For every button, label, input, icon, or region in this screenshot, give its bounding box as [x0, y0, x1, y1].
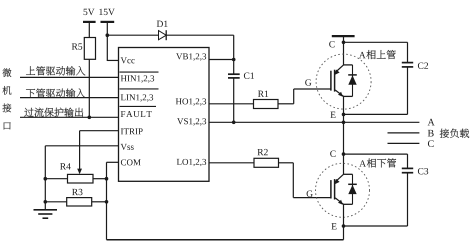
wire 5V to R5 — [88, 22, 90, 38]
wire to C2 top — [344, 41, 408, 43]
5V supply label — [84, 9, 95, 15]
wire upper emitter to lower collector — [343, 96, 345, 174]
pin Vcc — [121, 57, 135, 63]
node A label — [428, 119, 435, 126]
pin Vss — [121, 144, 134, 150]
wire R4 row — [45, 178, 67, 180]
wire HIN input — [20, 76, 119, 78]
15V supply bar — [101, 21, 115, 23]
过流保护输出 overcurrent protection output label — [24, 108, 83, 117]
junction 15V-D1 — [106, 33, 110, 37]
junction R3 right — [105, 200, 109, 204]
wire COM pin left — [107, 161, 119, 163]
junction phase midpoint — [342, 121, 346, 125]
node C label lower — [330, 151, 335, 157]
junction R4 left — [44, 177, 48, 181]
node E label lower — [331, 223, 336, 229]
junction upper emitter — [342, 113, 346, 117]
wire 15V to Vcc pin — [107, 59, 118, 61]
resistor R2 — [257, 149, 267, 155]
wire FAULT output — [20, 116, 119, 118]
5V supply bar — [83, 21, 96, 23]
junction R3 left — [44, 200, 48, 204]
pin ITRIP — [121, 128, 143, 134]
pin LIN1,2,3 (active low) — [121, 94, 153, 101]
wire C3 bottom to lower emitter — [407, 173, 409, 226]
wire 15V to D1 anode — [107, 34, 158, 36]
wire ITRIP pin to R4 wiper — [80, 130, 119, 132]
pin COM — [121, 159, 141, 165]
junction R4 right — [105, 177, 109, 181]
capacitor C3 — [402, 167, 413, 169]
node B stub — [388, 132, 420, 134]
pin VS1,2,3 — [177, 118, 206, 125]
DC+ bus bar — [332, 35, 355, 37]
node C label upper — [329, 41, 334, 47]
15V supply label — [99, 9, 114, 15]
junction lower emitter — [342, 224, 346, 228]
ground — [44, 202, 46, 210]
wire 15V vertical — [106, 22, 108, 61]
node E label upper — [330, 112, 335, 118]
wire R2 to lower gate — [279, 162, 294, 164]
wire R1 to upper gate — [278, 103, 294, 105]
wire C2 bottom to upper emitter — [407, 67, 409, 115]
A相下管 phase-A lower tube label — [359, 160, 366, 166]
wire Vss vertical to ground net — [44, 146, 46, 202]
node G label upper — [305, 79, 311, 85]
pin HO1,2,3 — [176, 98, 206, 105]
op-amp U1 driver IC box — [119, 48, 210, 182]
resistor R5 — [84, 38, 95, 60]
node G label lower — [307, 191, 313, 197]
junction C3 tap — [342, 152, 346, 156]
wire VB pin to bootstrap node — [209, 59, 234, 61]
node C stub — [388, 142, 420, 144]
wire lower emitter to rail — [343, 204, 345, 239]
capacitor C2 — [402, 62, 413, 64]
wire R3 row — [45, 201, 66, 203]
diode D1 — [159, 31, 167, 40]
R4 wiper arrowhead — [77, 169, 82, 175]
pin LO1,2,3 — [177, 159, 206, 166]
wire LO pin to R2 — [209, 162, 254, 164]
wire Vss pin left — [45, 145, 118, 147]
wire bootstrap vertical to VB — [233, 35, 235, 74]
resistor R3 — [72, 189, 82, 195]
potentiometer R4 — [60, 163, 71, 169]
wire to C3 top — [344, 153, 408, 155]
接负载 connect-load label — [440, 129, 469, 138]
下管驱动输入 lower-gate drive input label — [26, 88, 85, 97]
resistor R1 — [258, 91, 268, 97]
transistor Q2 lower IGBT with freewheel diode — [316, 163, 370, 217]
pin FAULT (active low) — [121, 111, 152, 117]
A相上管 phase-A upper tube label — [359, 52, 366, 58]
wire C1 to VS net — [233, 78, 235, 122]
junction C2 tap — [342, 41, 346, 45]
junction R5-FAULT — [88, 116, 92, 120]
上管驱动输入 upper-gate drive input label — [26, 66, 85, 75]
wire D1 cathode to bootstrap node — [166, 34, 234, 36]
wire DC+ to upper collector — [343, 36, 345, 65]
wire COM/emitter return rail — [107, 239, 344, 241]
wire HO pin to R1 — [209, 103, 254, 105]
pin VB1,2,3 — [176, 53, 206, 60]
transistor Q1 upper IGBT with freewheel diode — [316, 54, 371, 109]
wire R5 to FAULT net — [88, 59, 90, 117]
wire COM vertical — [106, 162, 108, 239]
junction VB node — [232, 58, 236, 62]
pin HIN1,2,3 (active low) — [121, 75, 154, 82]
capacitor C1 — [228, 73, 240, 75]
wire VS net to output A — [209, 121, 419, 123]
微机接口 microcomputer interface label (vertical) — [3, 68, 12, 77]
wire LIN input — [20, 97, 119, 99]
junction C1-VS — [232, 121, 236, 125]
